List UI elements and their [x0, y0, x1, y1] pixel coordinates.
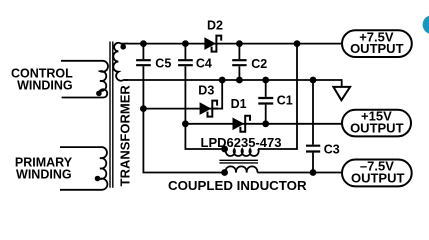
- svg-text:TRANSFORMER: TRANSFORMER: [118, 85, 133, 187]
- svg-text:D1: D1: [231, 97, 247, 111]
- svg-text:C2: C2: [251, 57, 267, 71]
- svg-text:OUTPUT: OUTPUT: [350, 120, 404, 135]
- svg-text:C4: C4: [196, 57, 212, 71]
- svg-text:C1: C1: [277, 94, 293, 108]
- svg-text:LPD6235-473: LPD6235-473: [201, 135, 282, 150]
- svg-text:OUTPUT: OUTPUT: [350, 41, 404, 56]
- svg-text:COUPLED INDUCTOR: COUPLED INDUCTOR: [168, 178, 307, 193]
- svg-text:WINDING: WINDING: [16, 168, 72, 182]
- svg-text:OUTPUT: OUTPUT: [351, 171, 405, 186]
- svg-text:D3: D3: [198, 83, 214, 97]
- svg-text:C3: C3: [324, 143, 340, 157]
- svg-text:WINDING: WINDING: [17, 79, 73, 93]
- svg-text:C5: C5: [155, 57, 171, 71]
- svg-text:D2: D2: [207, 18, 223, 32]
